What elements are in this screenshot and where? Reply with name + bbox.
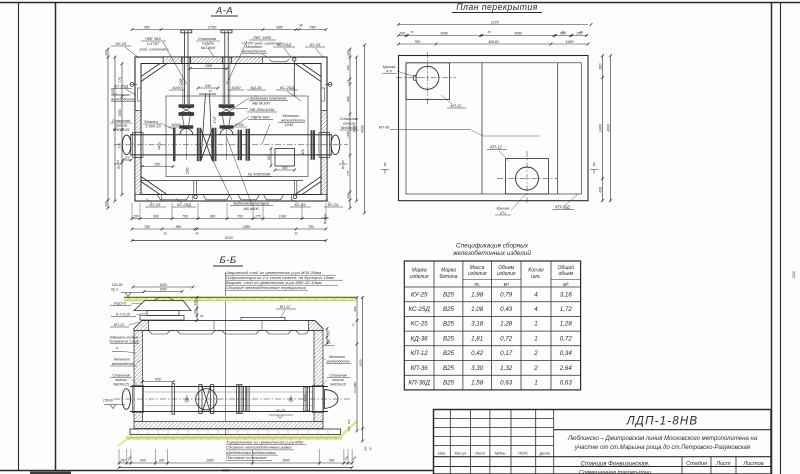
svg-text:3,16: 3,16 xyxy=(560,291,573,298)
svg-text:1680: 1680 xyxy=(566,40,574,44)
svg-text:участке от ст.Марьина роща до: участке от ст.Марьина роща до ст.Петровс… xyxy=(574,445,751,451)
svg-text:№830х15: №830х15 xyxy=(113,383,129,387)
svg-text:780: 780 xyxy=(308,225,314,229)
svg-text:775: 775 xyxy=(118,143,122,149)
svg-text:2: 2 xyxy=(533,365,538,372)
svg-text:ПВГ 100б: ПВГ 100б xyxy=(253,35,272,40)
svg-text:К-7-0,15: К-7-0,15 xyxy=(116,313,131,317)
svg-text:0,63: 0,63 xyxy=(500,379,513,386)
svg-text:ПВРК 600: ПВРК 600 xyxy=(251,115,270,120)
svg-text:0,43: 0,43 xyxy=(500,306,513,313)
svg-text:В25: В25 xyxy=(443,365,455,372)
svg-text:#100: #100 xyxy=(232,85,242,90)
svg-text:l=1787: l=1787 xyxy=(147,41,160,46)
svg-text:156,60: 156,60 xyxy=(103,399,113,403)
svg-text:Люблинско – Дмитровская линия: Люблинско – Дмитровская линия Московског… xyxy=(567,436,758,442)
svg-text:1: 1 xyxy=(534,335,537,342)
svg-text:0,17: 0,17 xyxy=(500,350,513,357)
svg-text:5220: 5220 xyxy=(222,468,231,472)
svg-text:Подп.: Подп. xyxy=(518,451,528,456)
svg-text:ПВ 200х100А: ПВ 200х100А xyxy=(250,107,275,112)
svg-text:1,32: 1,32 xyxy=(500,365,513,372)
svg-text:КЦО-6: КЦО-6 xyxy=(114,302,126,306)
svg-text:Общий: Общий xyxy=(558,264,575,271)
svg-text:0,72: 0,72 xyxy=(560,335,573,342)
svg-text:Совмещенная тягово-пони: Совмещенная тягово-пони xyxy=(579,470,651,474)
svg-text:железобетон: железобетон xyxy=(326,360,350,364)
svg-text:Стальная: Стальная xyxy=(198,37,216,41)
svg-text:Кол.уч: Кол.уч xyxy=(455,451,467,456)
svg-text:600: 600 xyxy=(598,64,602,70)
svg-text:#700: #700 xyxy=(235,122,245,127)
svg-text:1000: 1000 xyxy=(792,271,796,279)
svg-text:200: 200 xyxy=(346,193,350,199)
svg-text:КП-36Д: КП-36Д xyxy=(555,205,570,210)
svg-text:0,72: 0,72 xyxy=(500,335,513,342)
svg-text:Лист: Лист xyxy=(474,451,486,456)
svg-text:гильза: гильза xyxy=(115,378,126,382)
svg-text:10: 10 xyxy=(208,89,212,93)
svg-text:№630х10: №630х10 xyxy=(330,383,346,387)
svg-text:2: 2 xyxy=(533,350,538,357)
svg-text:#200: #200 xyxy=(172,122,182,127)
svg-text:1040: 1040 xyxy=(279,214,287,218)
svg-text:В25: В25 xyxy=(443,335,455,342)
svg-text:3600: 3600 xyxy=(352,125,356,133)
svg-text:300: 300 xyxy=(159,459,165,463)
svg-text:2080: 2080 xyxy=(205,459,214,463)
svg-text:75: 75 xyxy=(352,323,356,326)
svg-text:#400: #400 xyxy=(304,394,308,401)
svg-text:бетона: бетона xyxy=(440,274,458,280)
svg-text:1747: 1747 xyxy=(213,116,217,123)
svg-text:В25: В25 xyxy=(443,379,455,386)
svg-text:Кол-во: Кол-во xyxy=(528,268,544,274)
svg-text:500: 500 xyxy=(282,166,288,170)
svg-text:гильза: гильза xyxy=(115,124,127,128)
svg-text:Крышка: Крышка xyxy=(497,207,510,211)
svg-text:КС-25Д: КС-25Д xyxy=(277,42,291,47)
svg-text:275: 275 xyxy=(254,214,261,218)
svg-text:880: 880 xyxy=(346,96,350,101)
svg-text:150,25: 150,25 xyxy=(275,409,285,413)
svg-text:Стальная: Стальная xyxy=(340,117,358,121)
svg-text:1,81: 1,81 xyxy=(471,335,483,342)
svg-text:АВ #600: АВ #600 xyxy=(242,206,259,211)
svg-text:100: 100 xyxy=(364,446,368,451)
svg-text:1: 1 xyxy=(534,379,537,386)
svg-text:4: 4 xyxy=(116,347,118,351)
svg-text:КП-36Д: КП-36Д xyxy=(408,379,430,386)
svg-text:КП-36: КП-36 xyxy=(379,126,390,130)
svg-text:В25: В25 xyxy=(443,306,455,313)
svg-text:162,68: 162,68 xyxy=(112,283,123,287)
svg-text:5220: 5220 xyxy=(225,236,234,240)
svg-text:В25: В25 xyxy=(443,350,455,357)
svg-text:КП-12: КП-12 xyxy=(490,145,502,150)
svg-text:40: 40 xyxy=(200,314,204,318)
svg-text:850: 850 xyxy=(155,377,161,381)
svg-text:КУ-25: КУ-25 xyxy=(116,41,127,46)
svg-text:850: 850 xyxy=(155,162,161,166)
svg-text:780: 780 xyxy=(309,25,316,29)
svg-text:30: 30 xyxy=(163,232,167,236)
svg-text:Монолит: Монолит xyxy=(283,114,300,118)
svg-text:775: 775 xyxy=(118,77,122,83)
svg-text:Дата: Дата xyxy=(539,451,551,456)
svg-text:2680: 2680 xyxy=(242,225,251,229)
svg-text:1000: 1000 xyxy=(159,287,167,291)
svg-text:битумом за 2 раза: битумом за 2 раза xyxy=(109,340,138,344)
svg-text:520: 520 xyxy=(267,154,271,160)
svg-text:3080: 3080 xyxy=(514,31,522,35)
svg-text:2400: 2400 xyxy=(598,124,602,133)
svg-text:А-А: А-А xyxy=(215,6,233,17)
svg-text:изделия: изделия xyxy=(497,271,516,277)
svg-text:660: 660 xyxy=(353,306,357,311)
svg-text:объем: объем xyxy=(558,271,573,277)
svg-text:640: 640 xyxy=(205,84,211,88)
svg-text:4: 4 xyxy=(534,291,538,298)
svg-text:#400: #400 xyxy=(158,142,162,150)
svg-text:1,98: 1,98 xyxy=(471,291,484,298)
svg-text:0,42: 0,42 xyxy=(471,350,484,357)
svg-text:600: 600 xyxy=(598,187,602,193)
svg-text:100: 100 xyxy=(124,156,129,160)
svg-text:гильза: гильза xyxy=(343,122,355,126)
svg-text:200: 200 xyxy=(104,50,108,56)
svg-text:1,08: 1,08 xyxy=(471,306,484,313)
svg-text:200: 200 xyxy=(104,201,108,207)
svg-text:775: 775 xyxy=(346,171,350,176)
svg-text:860: 860 xyxy=(153,214,159,218)
svg-text:КУ-25: КУ-25 xyxy=(310,42,321,47)
svg-text:В25: В25 xyxy=(443,321,455,328)
svg-text:15: 15 xyxy=(410,30,414,34)
svg-text:100: 100 xyxy=(193,309,197,314)
svg-text:ЛДП-1-8НВ: ЛДП-1-8НВ xyxy=(626,416,699,428)
svg-text:780: 780 xyxy=(143,25,150,29)
svg-text:Спецификация сборных: Спецификация сборных xyxy=(456,242,529,250)
svg-text:гильза: гильза xyxy=(332,378,343,382)
svg-text:200: 200 xyxy=(398,31,405,35)
svg-text:600: 600 xyxy=(329,459,335,463)
svg-text:700: 700 xyxy=(237,214,243,218)
svg-text:885: 885 xyxy=(276,25,283,29)
svg-text:1640: 1640 xyxy=(282,459,290,463)
svg-text:КП-12: КП-12 xyxy=(280,305,291,309)
svg-text:КП-12: КП-12 xyxy=(114,323,125,327)
svg-text:КС-25Д: КС-25Д xyxy=(408,306,430,313)
svg-text:шт.: шт. xyxy=(531,274,541,280)
svg-text:т.: т. xyxy=(474,282,480,288)
svg-text:1600: 1600 xyxy=(159,283,167,287)
svg-text:изделия: изделия xyxy=(410,274,429,280)
svg-text:3,18: 3,18 xyxy=(471,321,484,328)
svg-text:Б-Б: Б-Б xyxy=(219,255,236,266)
svg-text:Марка: Марка xyxy=(412,268,427,274)
svg-text:1,72: 1,72 xyxy=(560,306,573,313)
svg-text:12: 12 xyxy=(346,80,350,84)
svg-text:40: 40 xyxy=(195,232,199,236)
svg-text:3080: 3080 xyxy=(440,31,448,35)
svg-text:Н=2480: Н=2480 xyxy=(353,382,357,393)
svg-text:4000: 4000 xyxy=(606,124,610,132)
svg-text:1,28: 1,28 xyxy=(560,321,573,328)
svg-text:Стальная: Стальная xyxy=(329,374,346,378)
svg-text:Стальная: Стальная xyxy=(112,119,130,123)
svg-text:1: 1 xyxy=(534,321,537,328)
svg-text:4: 4 xyxy=(534,306,538,313)
svg-text:Монолит: Монолит xyxy=(246,45,263,49)
svg-text:Тр 600/200А: Тр 600/200А xyxy=(248,172,271,177)
svg-text:(Л-): (Л-) xyxy=(500,211,506,215)
svg-text:2750: 2750 xyxy=(207,25,217,29)
svg-text:м³: м³ xyxy=(563,282,568,288)
svg-text:1,58: 1,58 xyxy=(471,379,484,386)
svg-text:780: 780 xyxy=(346,65,350,70)
svg-text:200: 200 xyxy=(346,50,350,56)
svg-text:1-600-16: 1-600-16 xyxy=(145,124,161,128)
svg-text:Песчаное основание: Песчаное основание xyxy=(226,455,267,460)
svg-text:30: 30 xyxy=(299,24,303,28)
svg-text:АВ №100: АВ №100 xyxy=(251,101,270,106)
svg-text:3600: 3600 xyxy=(111,89,115,97)
svg-text:В25: В25 xyxy=(443,291,455,298)
svg-text:1,28: 1,28 xyxy=(500,321,513,328)
svg-text:железобетон: железобетон xyxy=(241,50,267,54)
svg-text:План перекрытия: План перекрытия xyxy=(456,2,537,12)
svg-text:30: 30 xyxy=(369,447,373,450)
svg-text:469,83: 469,83 xyxy=(488,40,499,44)
svg-text:Задвижка клапанов: Задвижка клапанов xyxy=(233,201,269,206)
svg-text:785: 785 xyxy=(144,225,150,229)
svg-text:КС-25Д: КС-25Д xyxy=(280,85,294,90)
svg-text:0,34: 0,34 xyxy=(560,350,573,357)
svg-text:320: 320 xyxy=(301,149,305,155)
svg-text:Сборные железобетонные перекры: Сборные железобетонные перекрытия xyxy=(226,285,307,290)
svg-text:1550: 1550 xyxy=(346,131,350,138)
svg-text:Листов: Листов xyxy=(742,461,763,467)
svg-text:35: 35 xyxy=(294,232,298,236)
svg-text:15: 15 xyxy=(579,30,583,34)
svg-text:(инд. изготовл.): (инд. изготовл.) xyxy=(139,48,169,52)
svg-text:2630: 2630 xyxy=(358,359,362,367)
svg-text:КД-36: КД-36 xyxy=(411,335,429,342)
svg-text:КД-36: КД-36 xyxy=(251,85,263,90)
svg-text:железобетон: железобетон xyxy=(111,362,135,366)
svg-text:1040: 1040 xyxy=(285,123,294,127)
svg-text:железобетон: железобетон xyxy=(280,119,306,123)
svg-text:190: 190 xyxy=(120,459,126,463)
svg-text:Лист: Лист xyxy=(715,461,731,467)
svg-text:КП-36: КП-36 xyxy=(411,365,429,372)
svg-text:785: 785 xyxy=(414,40,420,44)
svg-text:железобетон: железобетон xyxy=(110,98,136,102)
svg-text:м³: м³ xyxy=(504,282,509,288)
svg-text:150: 150 xyxy=(193,300,197,305)
svg-text:КУ-25: КУ-25 xyxy=(411,291,428,298)
svg-text:Крышка: Крышка xyxy=(383,65,396,69)
svg-text:600: 600 xyxy=(140,459,146,463)
svg-text:3,30: 3,30 xyxy=(471,365,484,372)
svg-text:0,79: 0,79 xyxy=(500,291,513,298)
svg-text:15: 15 xyxy=(487,30,491,34)
svg-text:4000: 4000 xyxy=(360,125,364,133)
svg-text:Монолит: Монолит xyxy=(114,358,130,362)
svg-text:Стальная: Стальная xyxy=(112,374,129,378)
svg-text:КП-12: КП-12 xyxy=(411,350,429,357)
svg-text:1550: 1550 xyxy=(118,109,122,117)
svg-text:0,63: 0,63 xyxy=(560,379,573,386)
svg-text:труба: труба xyxy=(202,42,213,46)
svg-text:железобетонных изделий: железобетонных изделий xyxy=(452,249,531,257)
svg-text:15: 15 xyxy=(561,30,565,34)
svg-text:880: 880 xyxy=(176,225,182,229)
svg-text:КС-25: КС-25 xyxy=(411,321,429,328)
svg-text:Монолит: Монолит xyxy=(329,355,345,359)
svg-text:100: 100 xyxy=(347,419,351,424)
svg-text:КС-25Д: КС-25Д xyxy=(177,202,191,207)
svg-text:Марка: Марка xyxy=(441,268,456,274)
svg-text:1008: 1008 xyxy=(205,64,212,68)
svg-text:Стадия: Стадия xyxy=(686,461,707,467)
svg-text:1220: 1220 xyxy=(491,20,499,24)
svg-text:КП-12: КП-12 xyxy=(450,103,462,108)
svg-text:380: 380 xyxy=(210,214,216,218)
svg-text:#100: #100 xyxy=(173,85,183,90)
svg-text:№219х9: №219х9 xyxy=(201,46,216,50)
svg-text:700: 700 xyxy=(182,214,188,218)
svg-text:А-Л: А-Л xyxy=(385,70,392,74)
svg-text:Изм.: Изм. xyxy=(438,451,446,456)
svg-text:№док.: №док. xyxy=(495,451,506,456)
svg-text:КУ-25: КУ-25 xyxy=(328,202,339,207)
svg-text:изделия: изделия xyxy=(468,271,487,277)
svg-text:КС-25Д: КС-25Д xyxy=(114,84,128,89)
svg-text:КС-25: КС-25 xyxy=(295,202,307,207)
svg-text:140: 140 xyxy=(347,426,351,431)
svg-text:1385: 1385 xyxy=(186,167,190,174)
svg-text:2,64: 2,64 xyxy=(559,365,573,372)
svg-text:14: 14 xyxy=(327,341,331,345)
svg-text:200: 200 xyxy=(132,214,139,218)
svg-text:Станция Фонвизинская.: Станция Фонвизинская. xyxy=(581,462,650,468)
svg-text:Кр.л.: Кр.л. xyxy=(111,288,119,292)
